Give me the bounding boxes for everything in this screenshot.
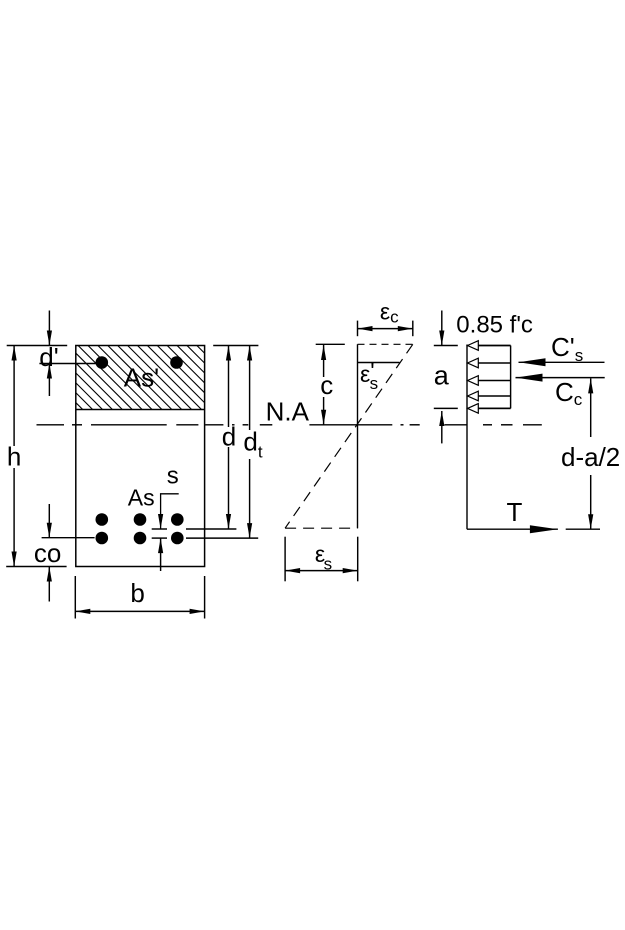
svg-text:co: co [34,538,61,568]
svg-text:d-a/2: d-a/2 [561,442,620,472]
svg-text:b: b [130,578,144,608]
svg-text:As: As [128,484,155,510]
svg-text:N.A: N.A [266,397,310,427]
svg-text:c: c [320,370,333,400]
svg-text:T: T [507,497,523,527]
svg-text:d: d [222,422,236,452]
svg-text:As': As' [124,362,159,392]
svg-text:h: h [7,441,21,471]
svg-text:a: a [434,360,450,390]
svg-text:0.85 f'c: 0.85 f'c [456,312,533,339]
svg-text:d': d' [39,342,58,372]
svg-text:s: s [167,462,179,489]
